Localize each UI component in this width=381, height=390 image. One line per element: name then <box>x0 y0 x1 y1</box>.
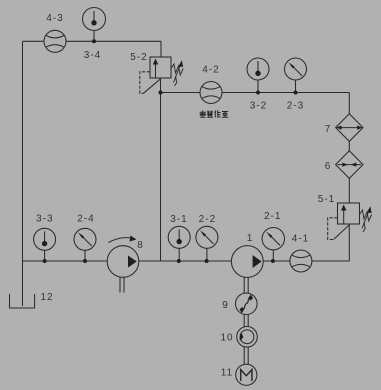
svg-text:9: 9 <box>222 300 229 311</box>
node 2-2 junction <box>205 259 209 263</box>
wire 5-2 to bottom bus <box>160 78 162 261</box>
wire bottom bus <box>23 260 350 262</box>
pressure gauge 2-2 <box>196 226 218 261</box>
svg-text:1: 1 <box>247 233 254 244</box>
svg-text:6: 6 <box>325 161 332 172</box>
svg-text:7: 7 <box>325 124 332 135</box>
pump 1 <box>231 246 263 294</box>
svg-text:4-3: 4-3 <box>46 13 63 24</box>
wire left vertical <box>22 41 24 306</box>
node 3-3 junction <box>43 259 47 263</box>
flow meter 4-2 <box>200 82 222 104</box>
pressure gauge 3-4 <box>83 8 106 42</box>
filter 6 <box>336 151 363 179</box>
node 3-1 junction <box>177 259 181 263</box>
svg-text:12: 12 <box>40 292 53 303</box>
node 3-2 junction <box>256 91 260 95</box>
node below 5-2 <box>159 91 163 95</box>
svg-text:10: 10 <box>220 333 233 344</box>
svg-text:2-3: 2-3 <box>287 101 304 112</box>
filter 7 <box>336 114 363 142</box>
svg-text:3-3: 3-3 <box>36 214 53 225</box>
svg-text:5-2: 5-2 <box>130 52 147 63</box>
node 2-1 junction <box>271 259 275 263</box>
pump 8 <box>107 236 139 293</box>
svg-text:2-2: 2-2 <box>199 214 216 225</box>
svg-text:3-4: 3-4 <box>84 50 101 61</box>
wire 5-2 drop <box>160 41 162 57</box>
motor 11 <box>236 364 257 385</box>
svg-text:2-4: 2-4 <box>77 214 94 225</box>
pressure gauge 3-3 <box>34 228 56 261</box>
node 2-4 junction <box>83 259 87 263</box>
svg-text:3-1: 3-1 <box>170 214 187 225</box>
torque meter 9 <box>236 293 258 315</box>
relief valve 5-1 <box>328 203 372 240</box>
node 3-4 junction <box>92 39 96 43</box>
wire top bus <box>23 40 162 42</box>
pressure gauge 3-2 <box>247 58 269 93</box>
flow meter 4-3 <box>44 30 66 52</box>
node 2-3 junction <box>294 91 298 95</box>
svg-text:3-2: 3-2 <box>250 101 267 112</box>
svg-text:11: 11 <box>221 368 233 379</box>
pressure gauge 2-3 <box>285 58 307 93</box>
shaft 9-10 <box>244 315 248 327</box>
svg-text:5-1: 5-1 <box>318 194 335 205</box>
pressure gauge 2-4 <box>74 228 96 261</box>
coupling 10 <box>237 327 258 348</box>
wire mid bus <box>161 92 350 94</box>
svg-text:4-1: 4-1 <box>292 234 309 245</box>
tank 12 <box>10 294 35 308</box>
flow meter 4-1 <box>290 250 312 272</box>
relief valve 5-2 <box>140 57 183 93</box>
pressure gauge 2-1 <box>262 228 284 262</box>
shaft 10-11 <box>244 347 248 364</box>
label 替换位置 (drawn glyphs) <box>200 111 229 118</box>
wire right vertical <box>348 93 350 262</box>
pressure gauge 3-1 <box>168 226 190 261</box>
svg-text:8: 8 <box>137 240 144 251</box>
svg-text:4-2: 4-2 <box>202 65 219 76</box>
svg-text:2-1: 2-1 <box>264 211 281 222</box>
